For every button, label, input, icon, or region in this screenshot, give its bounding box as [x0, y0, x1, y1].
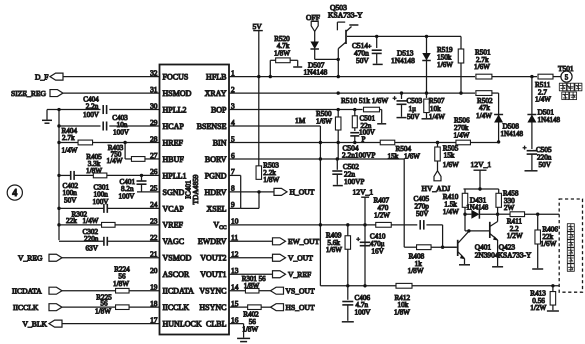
svg-text:VSYNC: VSYNC [199, 287, 226, 296]
svg-text:XRAY: XRAY [205, 89, 227, 98]
svg-text:D431: D431 [470, 196, 487, 205]
svg-text:1/8W: 1/8W [95, 308, 111, 316]
svg-text:1/8W: 1/8W [394, 309, 410, 317]
svg-text:IICCLK: IICCLK [163, 303, 190, 312]
svg-text:C503: C503 [407, 97, 423, 105]
svg-text:BORV: BORV [205, 155, 227, 164]
svg-text:SGND: SGND [163, 188, 185, 197]
svg-text:V_BLK: V_BLK [23, 319, 48, 328]
svg-text:20: 20 [150, 266, 158, 275]
svg-text:24: 24 [150, 200, 158, 209]
svg-text:TDA4859: TDA4859 [191, 174, 200, 204]
svg-text:1/6W: 1/6W [316, 117, 332, 125]
svg-text:VS_OUT: VS_OUT [286, 287, 315, 296]
svg-text:22: 22 [150, 233, 158, 242]
svg-text:HCAP: HCAP [163, 122, 185, 131]
svg-text:HSYNC: HSYNC [199, 303, 226, 312]
svg-text:25: 25 [150, 184, 158, 193]
svg-text:HPLL2: HPLL2 [163, 105, 187, 114]
svg-text:1/4W: 1/4W [454, 131, 470, 139]
svg-text:1N4148: 1N4148 [501, 130, 524, 138]
svg-text:1/6W: 1/6W [443, 161, 459, 169]
svg-text:1/2W: 1/2W [530, 304, 546, 312]
svg-text:1/8W: 1/8W [242, 325, 258, 333]
svg-text:19: 19 [150, 283, 158, 292]
svg-text:+: + [523, 145, 527, 152]
svg-text:1/4W: 1/4W [443, 208, 459, 216]
svg-text:15k: 15k [444, 152, 455, 160]
svg-text:H_OUT: H_OUT [290, 188, 315, 197]
svg-text:VCAP: VCAP [163, 204, 185, 213]
svg-text:+: + [356, 237, 360, 244]
svg-text:1/6W: 1/6W [540, 240, 556, 248]
svg-text:HS_OUT: HS_OUT [286, 303, 315, 312]
svg-text:2.7k: 2.7k [62, 134, 75, 142]
svg-text:VAGC: VAGC [163, 237, 185, 246]
svg-text:BOP: BOP [211, 105, 227, 114]
svg-text:1/6W: 1/6W [474, 63, 490, 71]
svg-text:22k: 22k [66, 217, 77, 225]
svg-text:30: 30 [150, 101, 158, 110]
svg-text:50V: 50V [539, 161, 552, 169]
svg-text:5: 5 [565, 74, 569, 81]
svg-text:R510 51k 1/6W: R510 51k 1/6W [341, 96, 388, 105]
svg-text:KSA733-Y: KSA733-Y [498, 251, 532, 260]
svg-text:1/4W: 1/4W [83, 217, 99, 225]
svg-text:1/6W: 1/6W [326, 246, 342, 254]
svg-text:220n: 220n [84, 235, 99, 243]
svg-text:1/4W: 1/4W [62, 147, 78, 155]
svg-text:IICDATA: IICDATA [163, 287, 195, 296]
svg-text:2W: 2W [504, 204, 515, 212]
svg-text:HBUF: HBUF [163, 155, 185, 164]
svg-text:1/2W: 1/2W [374, 212, 390, 220]
svg-text:50V: 50V [64, 196, 77, 204]
svg-text:27: 27 [150, 151, 158, 160]
svg-text:1/4W: 1/4W [535, 96, 551, 104]
svg-text:HUNLOCK: HUNLOCK [163, 320, 202, 329]
svg-text:HFLB: HFLB [206, 73, 226, 82]
svg-text:1/2W: 1/2W [507, 232, 523, 240]
svg-text:1/6W: 1/6W [437, 61, 453, 69]
svg-text:VSMOD: VSMOD [163, 254, 192, 263]
svg-text:100V: 100V [83, 111, 100, 119]
svg-text:21: 21 [150, 250, 158, 259]
svg-text:2.2n: 2.2n [86, 103, 99, 111]
svg-text:10k: 10k [430, 105, 441, 113]
svg-text:32: 32 [150, 68, 158, 77]
svg-text:KSA733-Y: KSA733-Y [328, 11, 363, 20]
svg-text:50V: 50V [416, 210, 429, 218]
svg-text:BSENSE: BSENSE [197, 122, 227, 131]
svg-text:1/8W: 1/8W [408, 267, 424, 275]
svg-text:1/6W: 1/6W [404, 153, 420, 161]
svg-text:1/8W: 1/8W [263, 176, 279, 184]
svg-text:2.2n100VP: 2.2n100VP [342, 151, 375, 160]
svg-text:47k: 47k [479, 104, 490, 112]
svg-text:CLBL: CLBL [206, 320, 227, 329]
svg-text:EWDRV: EWDRV [198, 237, 227, 246]
svg-text:1/4W: 1/4W [476, 112, 492, 120]
svg-text:HPLL1: HPLL1 [163, 171, 187, 180]
svg-text:PGND: PGND [205, 171, 227, 180]
svg-text:100V: 100V [119, 192, 136, 200]
svg-text:1N4148: 1N4148 [538, 116, 561, 124]
svg-text:D_F: D_F [35, 72, 49, 81]
svg-text:4: 4 [12, 188, 17, 199]
svg-text:31: 31 [150, 85, 158, 94]
svg-text:23: 23 [150, 217, 158, 226]
svg-text:16V: 16V [371, 247, 384, 255]
svg-text:ASCOR: ASCOR [163, 270, 190, 279]
svg-text:OFF: OFF [306, 13, 320, 22]
svg-text:12V_1: 12V_1 [471, 160, 492, 169]
svg-text:V_OUT: V_OUT [288, 254, 313, 263]
svg-text:26: 26 [150, 167, 158, 176]
svg-text:100VP: 100VP [344, 177, 365, 186]
svg-text:1/4W: 1/4W [429, 113, 445, 121]
svg-text:HREF: HREF [163, 138, 184, 147]
svg-text:1/8W: 1/8W [274, 50, 290, 58]
svg-text:50V: 50V [407, 113, 420, 121]
svg-text:100V: 100V [113, 129, 130, 137]
svg-text:1M: 1M [295, 116, 306, 125]
svg-text:12V_1: 12V_1 [353, 187, 374, 196]
svg-text:100V: 100V [355, 309, 372, 317]
svg-text:EW_OUT: EW_OUT [288, 237, 320, 246]
svg-text:18: 18 [150, 299, 158, 308]
svg-text:IICCLK: IICCLK [13, 303, 39, 312]
svg-text:1N4148: 1N4148 [391, 56, 415, 65]
svg-text:50V: 50V [356, 56, 369, 65]
svg-text:1N4148: 1N4148 [466, 205, 489, 212]
svg-text:63V: 63V [86, 244, 99, 252]
svg-text:IICDATA: IICDATA [12, 287, 42, 296]
svg-text:HDRV: HDRV [204, 188, 226, 197]
svg-text:5V: 5V [253, 22, 263, 31]
svg-text:VREF: VREF [163, 221, 184, 230]
svg-text:BIN: BIN [213, 138, 227, 147]
svg-text:2N3904: 2N3904 [475, 251, 499, 260]
svg-text:VOUT1: VOUT1 [200, 270, 226, 279]
svg-text:V_REF: V_REF [288, 270, 311, 279]
svg-text:28: 28 [150, 134, 158, 143]
svg-text:1/8W: 1/8W [244, 282, 260, 290]
svg-text:17: 17 [150, 315, 158, 324]
svg-text:1/8W: 1/8W [113, 280, 129, 288]
svg-text:VOUT2: VOUT2 [200, 254, 226, 263]
svg-text:29: 29 [150, 118, 158, 127]
svg-text:56: 56 [100, 299, 108, 307]
svg-text:1N4148: 1N4148 [304, 68, 328, 77]
svg-text:FOCUS: FOCUS [163, 73, 189, 82]
svg-text:XSEL: XSEL [207, 204, 227, 213]
svg-text:+: + [393, 95, 397, 102]
svg-text:R507: R507 [429, 97, 445, 105]
svg-text:SIZE_REG: SIZE_REG [11, 89, 47, 98]
svg-text:1/4W: 1/4W [107, 157, 123, 165]
svg-text:HSMOD: HSMOD [163, 89, 192, 98]
svg-text:1μ: 1μ [409, 105, 417, 113]
svg-text:HV_ADJ: HV_ADJ [422, 184, 451, 193]
svg-text:V_REG: V_REG [18, 254, 43, 263]
